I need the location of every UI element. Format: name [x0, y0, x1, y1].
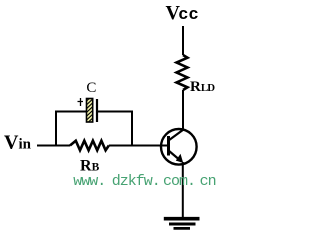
svg-text:C: C — [86, 80, 96, 96]
svg-text:cc: cc — [178, 6, 198, 25]
svg-text:dzkfw.: dzkfw. — [112, 173, 160, 190]
svg-text:cn: cn — [200, 173, 216, 190]
svg-text:www.: www. — [73, 173, 105, 190]
svg-text:com.: com. — [163, 173, 195, 190]
svg-text:RLD: RLD — [190, 79, 215, 95]
